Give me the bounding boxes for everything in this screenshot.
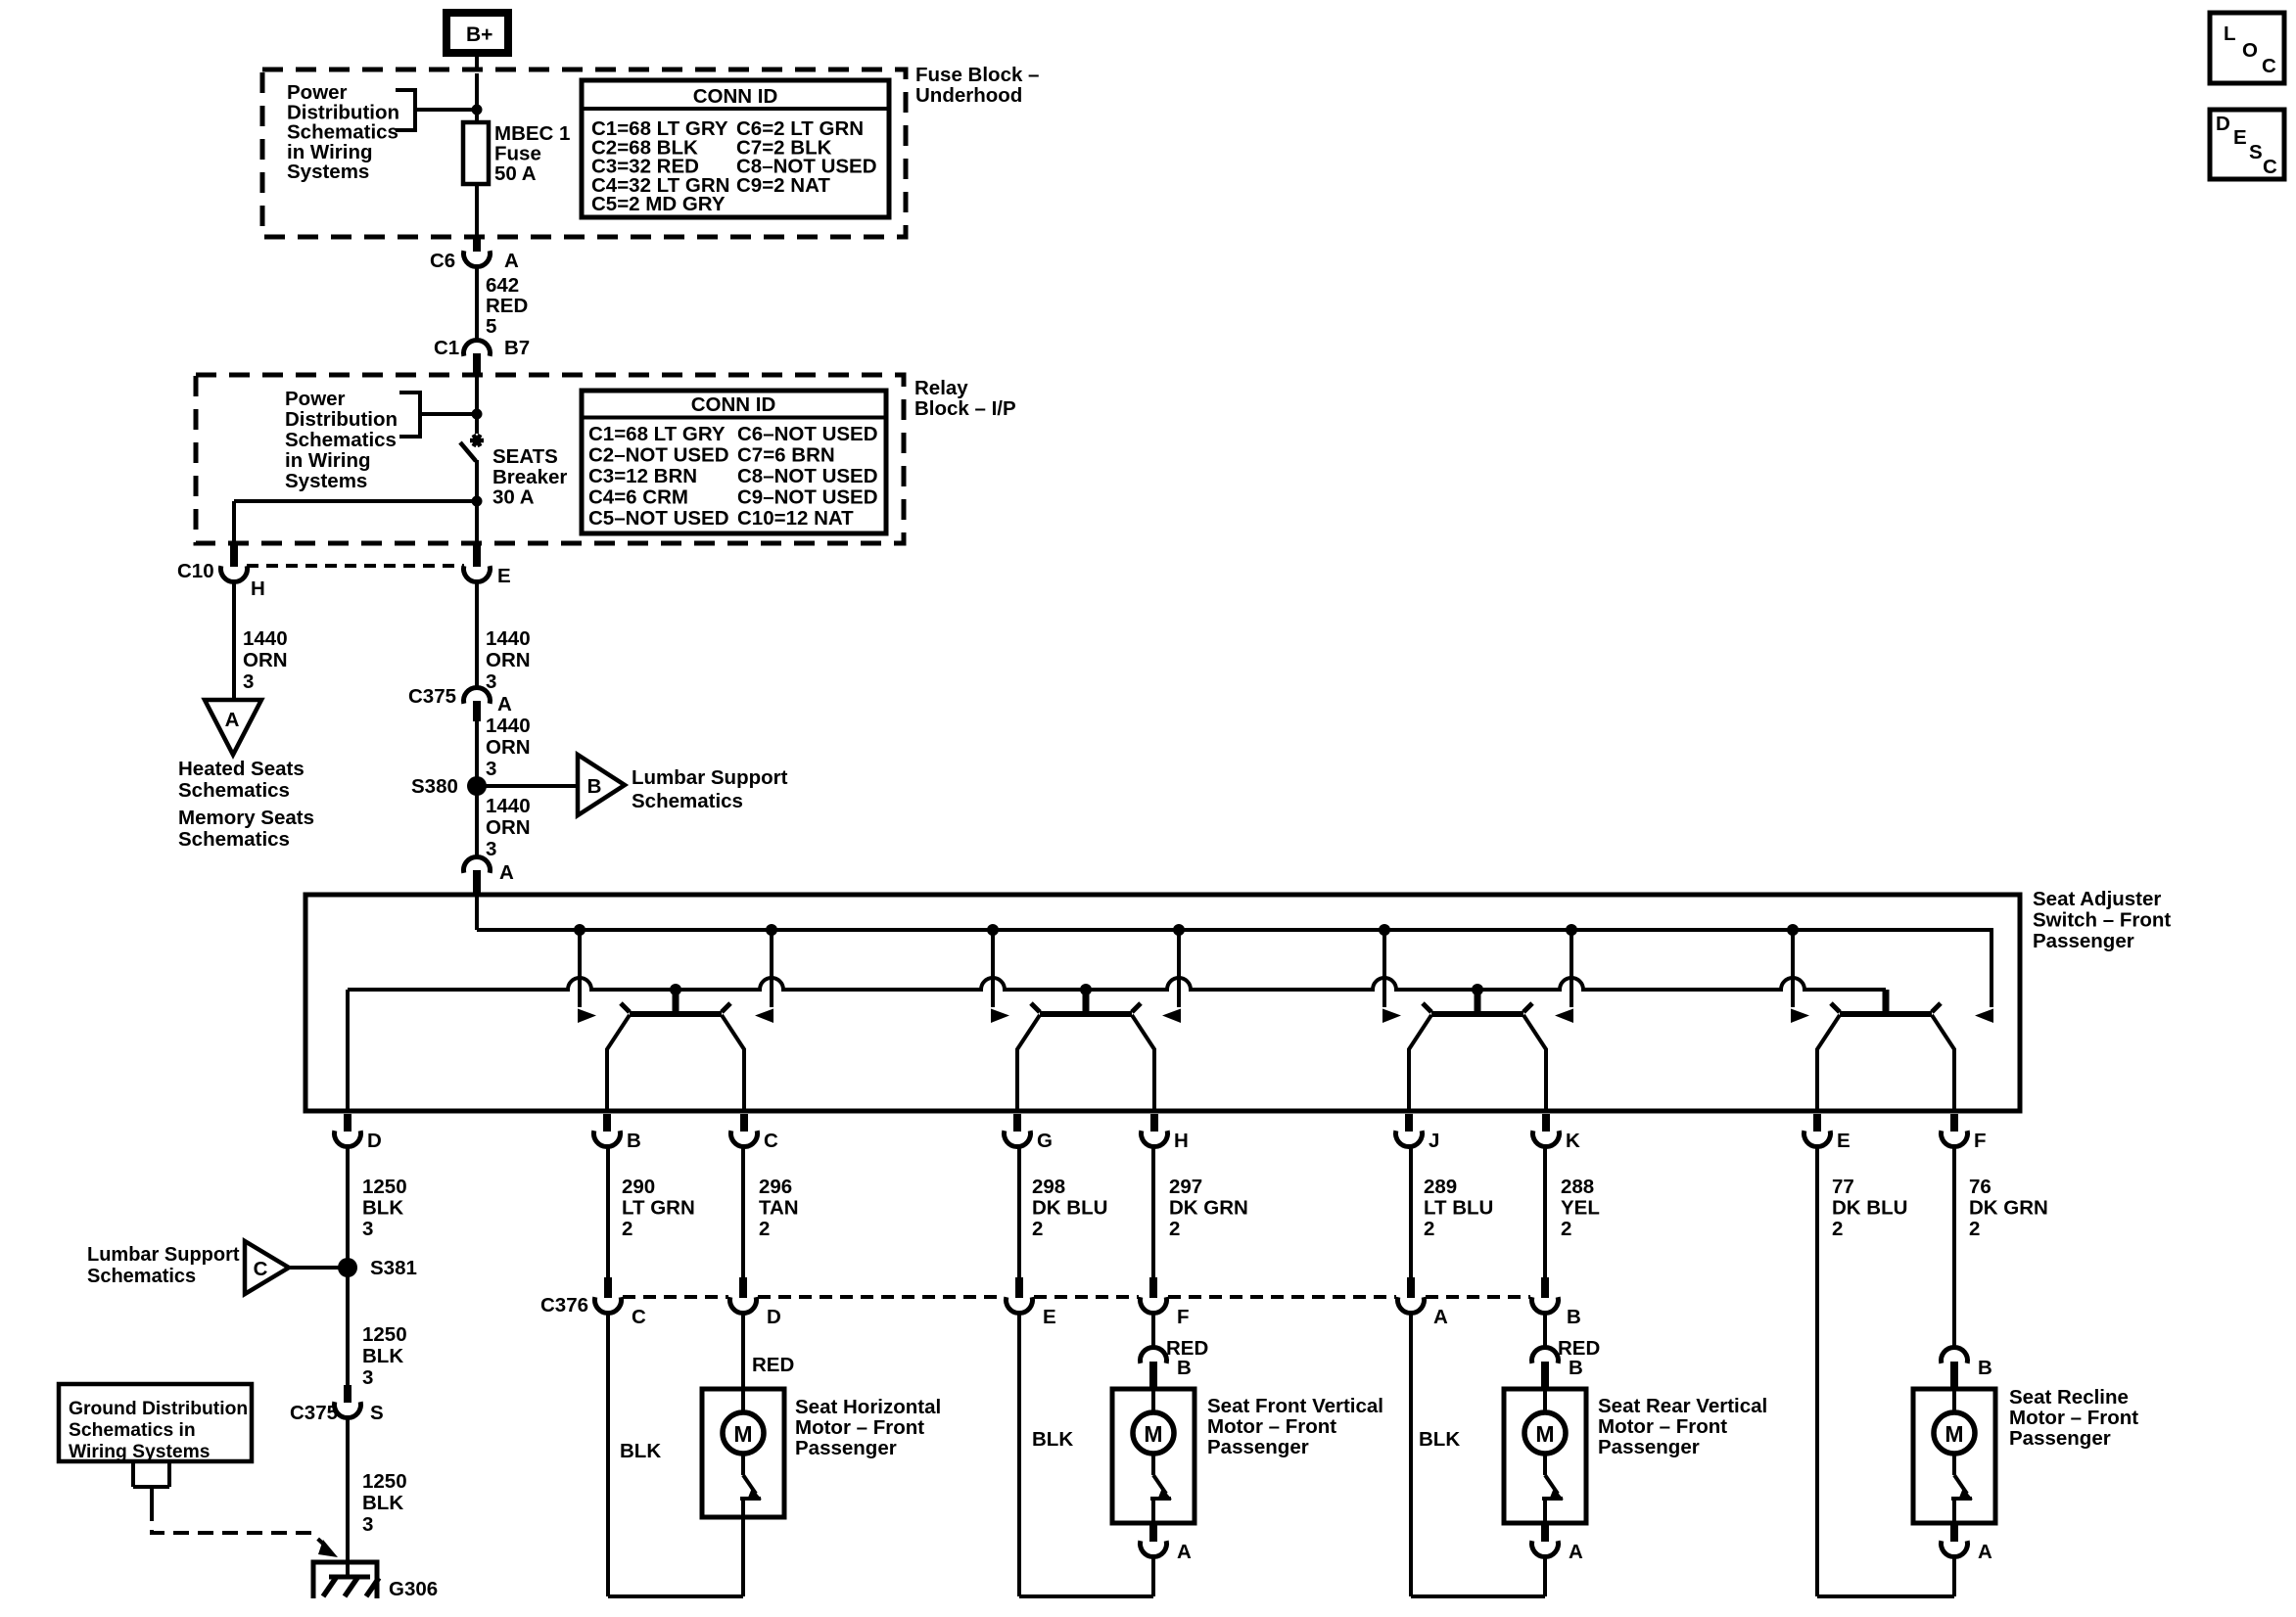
svg-text:Systems: Systems [287,161,369,183]
svg-text:1440: 1440 [486,715,531,737]
svg-text:S380: S380 [411,775,458,798]
svg-text:RED: RED [752,1354,794,1376]
svg-text:C9=2 NAT: C9=2 NAT [736,174,830,197]
svg-text:3: 3 [243,670,254,693]
svg-text:C7=6 BRN: C7=6 BRN [737,444,835,467]
svg-text:C5–NOT USED: C5–NOT USED [588,507,729,530]
svg-text:BLK: BLK [1032,1428,1073,1451]
svg-text:298: 298 [1032,1176,1065,1198]
svg-text:YEL: YEL [1561,1197,1600,1220]
svg-text:C: C [632,1306,646,1328]
svg-text:Schematics: Schematics [87,1266,196,1287]
svg-text:G: G [1037,1130,1053,1152]
svg-text:RED: RED [1166,1337,1208,1360]
svg-text:C8–NOT USED: C8–NOT USED [737,465,878,487]
svg-text:Switch – Front: Switch – Front [2033,909,2171,932]
svg-text:Ground Distribution: Ground Distribution [69,1399,248,1419]
svg-text:Fuse Block –: Fuse Block – [915,64,1039,86]
svg-text:C3=12 BRN: C3=12 BRN [588,465,697,487]
svg-text:C10=12 NAT: C10=12 NAT [737,507,854,530]
svg-text:B7: B7 [504,337,530,359]
svg-text:Lumbar Support: Lumbar Support [87,1244,240,1266]
svg-text:A: A [497,693,512,716]
svg-text:2: 2 [1969,1218,1980,1240]
svg-text:ORN: ORN [486,649,531,671]
svg-text:LT BLU: LT BLU [1424,1197,1493,1220]
svg-text:B: B [1569,1357,1583,1379]
svg-text:2: 2 [1424,1218,1434,1240]
svg-text:Passenger: Passenger [2033,930,2134,952]
svg-text:S: S [2249,141,2263,163]
svg-text:Seat Rear Vertical: Seat Rear Vertical [1598,1395,1767,1417]
svg-text:296: 296 [759,1176,792,1198]
svg-text:Relay: Relay [914,377,968,399]
svg-text:ORN: ORN [486,736,531,759]
svg-text:Breaker: Breaker [492,466,567,488]
svg-text:A: A [225,709,240,731]
svg-text:F: F [1177,1306,1190,1328]
svg-text:B: B [1177,1357,1192,1379]
svg-text:DK BLU: DK BLU [1832,1197,1907,1220]
svg-text:K: K [1566,1130,1580,1152]
svg-text:Motor – Front: Motor – Front [1207,1415,1336,1438]
svg-text:B: B [1567,1306,1581,1328]
svg-text:297: 297 [1169,1176,1202,1198]
svg-text:642: 642 [486,274,519,297]
svg-text:RED: RED [486,295,528,317]
svg-text:H: H [251,577,265,600]
svg-text:A: A [499,861,514,884]
svg-text:A: A [1177,1541,1192,1563]
svg-text:C6–NOT USED: C6–NOT USED [737,423,878,445]
svg-text:50 A: 50 A [494,162,537,185]
svg-text:C375: C375 [290,1402,338,1424]
svg-text:Schematics in: Schematics in [69,1420,196,1441]
svg-text:C: C [764,1130,778,1152]
svg-text:LT GRN: LT GRN [622,1197,695,1220]
svg-text:BLK: BLK [362,1345,403,1367]
svg-text:S: S [370,1402,384,1424]
svg-text:M: M [1945,1421,1963,1447]
svg-text:3: 3 [362,1513,373,1536]
svg-text:Lumbar Support: Lumbar Support [632,766,788,789]
svg-text:SEATS: SEATS [492,445,558,468]
svg-text:TAN: TAN [759,1197,799,1220]
svg-text:E: E [2233,126,2247,149]
svg-text:E: E [1043,1306,1056,1328]
svg-text:77: 77 [1832,1176,1854,1198]
svg-text:E: E [1837,1130,1851,1152]
svg-text:D: D [767,1306,781,1328]
svg-text:D: D [2216,113,2230,135]
svg-text:B: B [587,775,602,798]
svg-text:1250: 1250 [362,1176,407,1198]
svg-text:3: 3 [486,838,496,860]
svg-text:Systems: Systems [285,470,367,492]
svg-text:L: L [2224,23,2236,45]
svg-text:Schematics: Schematics [178,779,290,802]
svg-text:O: O [2242,39,2258,62]
svg-text:Motor – Front: Motor – Front [1598,1415,1727,1438]
svg-text:30 A: 30 A [492,486,535,509]
svg-text:D: D [367,1130,382,1152]
svg-text:288: 288 [1561,1176,1594,1198]
svg-text:ORN: ORN [486,816,531,839]
svg-text:5: 5 [486,315,496,338]
svg-text:Fuse: Fuse [494,143,541,165]
svg-text:Power: Power [285,388,346,410]
svg-text:C5=2 MD GRY: C5=2 MD GRY [591,193,726,215]
svg-text:DK GRN: DK GRN [1169,1197,1248,1220]
svg-text:1250: 1250 [362,1470,407,1493]
svg-text:DK GRN: DK GRN [1969,1197,2048,1220]
svg-text:BLK: BLK [620,1440,661,1462]
svg-text:DK BLU: DK BLU [1032,1197,1107,1220]
svg-text:BLK: BLK [362,1492,403,1514]
svg-text:2: 2 [1832,1218,1843,1240]
svg-text:C1: C1 [434,337,459,359]
svg-text:A: A [1569,1541,1583,1563]
svg-text:290: 290 [622,1176,655,1198]
svg-text:A: A [504,250,519,272]
svg-text:B: B [627,1130,641,1152]
svg-text:Motor – Front: Motor – Front [795,1416,924,1439]
svg-text:M: M [1535,1421,1554,1447]
svg-text:Schematics: Schematics [285,429,397,451]
svg-text:C: C [2263,156,2277,178]
svg-text:Underhood: Underhood [915,84,1022,107]
svg-text:M: M [1144,1421,1162,1447]
svg-text:Memory Seats: Memory Seats [178,807,314,829]
svg-text:BLK: BLK [362,1197,403,1220]
svg-text:2: 2 [759,1218,770,1240]
svg-text:BLK: BLK [1419,1428,1460,1451]
svg-text:G306: G306 [389,1578,438,1600]
svg-text:3: 3 [362,1366,373,1389]
svg-text:Wiring Systems: Wiring Systems [69,1442,210,1462]
svg-text:Heated Seats: Heated Seats [178,758,305,780]
svg-text:J: J [1429,1130,1439,1152]
svg-text:Distribution: Distribution [285,408,398,431]
svg-text:B+: B+ [466,23,492,46]
svg-text:in Wiring: in Wiring [285,449,371,472]
svg-text:Motor – Front: Motor – Front [2009,1407,2138,1429]
svg-text:Block – I/P: Block – I/P [914,397,1016,420]
svg-text:1250: 1250 [362,1323,407,1346]
svg-text:B: B [1978,1357,1992,1379]
svg-text:1440: 1440 [486,795,531,817]
svg-text:E: E [497,565,511,587]
svg-text:Seat Adjuster: Seat Adjuster [2033,888,2161,910]
svg-text:RED: RED [1558,1337,1600,1360]
svg-text:C376: C376 [540,1294,588,1317]
svg-text:C1=68 LT GRY: C1=68 LT GRY [588,423,726,445]
svg-text:A: A [1978,1541,1992,1563]
svg-text:Schematics: Schematics [632,790,743,812]
svg-text:Seat Front Vertical: Seat Front Vertical [1207,1395,1383,1417]
svg-text:C: C [254,1258,268,1280]
svg-text:MBEC 1: MBEC 1 [494,122,570,145]
svg-text:1440: 1440 [243,627,288,650]
svg-text:3: 3 [486,758,496,780]
svg-text:C6: C6 [430,250,455,272]
svg-text:CONN ID: CONN ID [693,85,778,108]
svg-text:Seat Horizontal: Seat Horizontal [795,1396,941,1418]
svg-text:289: 289 [1424,1176,1457,1198]
svg-text:C2–NOT USED: C2–NOT USED [588,444,729,467]
svg-text:2: 2 [1561,1218,1571,1240]
svg-text:1440: 1440 [486,627,531,650]
svg-text:2: 2 [1032,1218,1043,1240]
svg-text:C4=6 CRM: C4=6 CRM [588,486,688,509]
svg-text:2: 2 [622,1218,633,1240]
svg-text:Passenger: Passenger [795,1437,897,1459]
svg-text:CONN ID: CONN ID [691,393,776,416]
svg-text:C10: C10 [177,560,214,582]
svg-text:A: A [1433,1306,1448,1328]
svg-text:2: 2 [1169,1218,1180,1240]
svg-text:C9–NOT USED: C9–NOT USED [737,486,878,509]
svg-text:Passenger: Passenger [1598,1436,1700,1458]
svg-text:S381: S381 [370,1257,417,1279]
svg-text:F: F [1974,1130,1987,1152]
svg-text:Schematics: Schematics [178,828,290,851]
svg-text:Passenger: Passenger [2009,1427,2111,1450]
svg-text:Passenger: Passenger [1207,1436,1309,1458]
svg-text:M: M [733,1421,752,1447]
svg-text:ORN: ORN [243,649,288,671]
svg-text:C375: C375 [408,685,456,708]
svg-text:C: C [2262,55,2276,77]
svg-text:76: 76 [1969,1176,1991,1198]
svg-text:H: H [1174,1130,1189,1152]
svg-text:3: 3 [362,1218,373,1240]
svg-text:Seat Recline: Seat Recline [2009,1386,2129,1409]
